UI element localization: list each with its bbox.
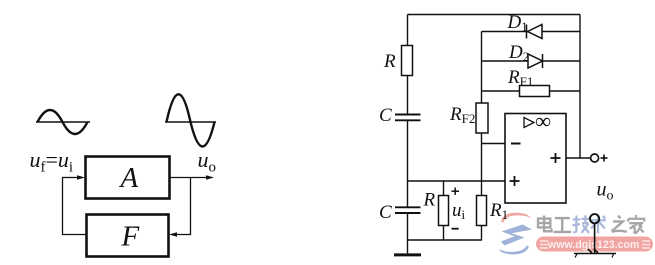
watermark char 术 (590, 216, 606, 234)
wire: bottom rail (408, 239, 483, 241)
svg-text:A: A (119, 162, 139, 194)
svg-text:C: C (379, 202, 392, 223)
wire: right feedback vertical (top rail to output) (579, 15, 581, 159)
big sine wave symbol (output) (165, 94, 216, 146)
svg-text:uo: uo (597, 179, 614, 204)
watermark logo swirl (499, 213, 532, 255)
capacitor C (bottom, parallel) (395, 207, 421, 213)
svg-text:C: C (379, 105, 392, 126)
ground (bottom left) (394, 240, 421, 255)
svg-text:uf=ui: uf=ui (30, 147, 74, 176)
block F box (87, 215, 169, 257)
wire: F output feedback to A input (63, 178, 87, 235)
op-amp minus input sign (511, 143, 521, 145)
small sine wave symbol (input) (36, 110, 90, 134)
svg-text:D1: D1 (507, 12, 528, 34)
svg-text:uo: uo (198, 147, 217, 176)
svg-text:www.dgjs123.com: www.dgjs123.com (547, 239, 639, 251)
wire: RF1 branch horizontal (482, 90, 581, 92)
wire: op-amp output to terminal (566, 157, 591, 159)
svg-text:R: R (423, 190, 436, 211)
wire: noninverting input line (node to op-amp +) (408, 180, 506, 182)
plus sign at output terminal (601, 155, 608, 162)
wire: diode branch left vertical (D1 line down to RF2) (481, 32, 483, 104)
op-amp U1 box (505, 114, 566, 204)
wire: A output to the right with arrowhead (170, 175, 215, 180)
resistor R (top left) (402, 46, 413, 76)
svg-text:∞: ∞ (535, 109, 551, 134)
wire: D1 branch horizontal (482, 31, 581, 33)
wire: bottom terminal down to ground (594, 223, 596, 253)
svg-text:RF1: RF1 (507, 67, 533, 89)
watermark char 工 (554, 218, 572, 232)
op-amp output plus sign (551, 153, 561, 163)
svg-text:ui: ui (452, 200, 466, 222)
watermark char 之 (612, 216, 627, 232)
resistor R (parallel, bottom) (439, 181, 449, 240)
wire: output branch down into F with arrowhead (169, 178, 191, 237)
wire: node down to bottom capacitor (407, 181, 409, 207)
watermark char 电 (vector strokes) (538, 216, 552, 232)
resistor R1 (bottom) (477, 196, 487, 241)
wire: D2 branch horizontal (482, 60, 581, 62)
wire: top rail (408, 14, 581, 16)
op-amp plus input sign (510, 176, 520, 186)
resistor RF2 (vertical) (476, 103, 488, 133)
wire: R to capacitor C (407, 76, 409, 115)
watermark banner pill (536, 237, 653, 252)
watermark char 技 (573, 215, 590, 233)
svg-text:RF2: RF2 (449, 104, 475, 126)
capacitor C (top, series) (395, 115, 421, 121)
resistor RF1 (horizontal box) (520, 86, 550, 97)
wire: C down to + input node (407, 121, 409, 182)
svg-text:F: F (121, 221, 140, 253)
wire: bottom capacitor to bottom rail (407, 214, 409, 241)
watermark char 家 (628, 215, 644, 234)
output terminal circle (top) (591, 154, 599, 162)
diode D1 (points left) (527, 25, 543, 39)
wire: inverting input line to op-amp (482, 143, 506, 145)
diode D2 (points right) (528, 54, 543, 68)
wire: input into A with arrowhead (62, 175, 85, 180)
wire: RF2 bottom through inverting node down to R1 (crosses + line) (481, 133, 483, 196)
ground (bottom right) (574, 249, 616, 258)
wire: left column top (rail to R) (407, 15, 409, 46)
op-amp gain symbol (triangle + infinity) (524, 109, 551, 134)
svg-text:R: R (383, 51, 396, 72)
block A box (86, 157, 170, 199)
voltage ui with polarity marks (452, 188, 466, 229)
svg-text:D2: D2 (508, 42, 529, 64)
output terminal circle (bottom) (590, 214, 599, 223)
